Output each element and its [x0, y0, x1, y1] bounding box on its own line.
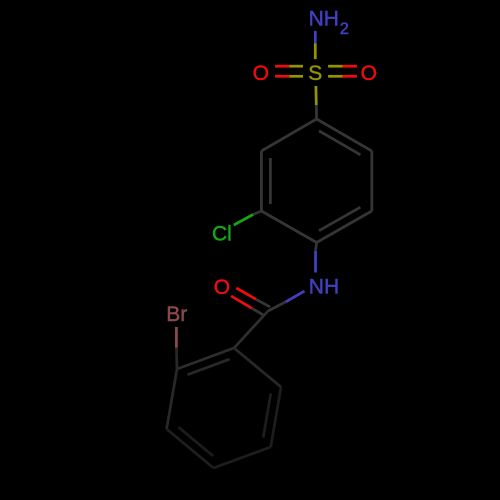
svg-text:NH: NH — [309, 275, 339, 298]
ring2 inner double C10=C11 — [179, 427, 214, 456]
ring2 edge C10-C11 — [167, 429, 214, 468]
bond C7-C8 — [234, 311, 268, 348]
bond S=O left, line2 O-half — [275, 75, 289, 78]
bond C9-Br Br-half (brown) — [175, 327, 178, 348]
svg-text:NH: NH — [309, 8, 339, 31]
svg-text:O: O — [214, 276, 230, 299]
bond N-C7 C-half (dark) — [268, 302, 286, 311]
svg-text:O: O — [253, 62, 269, 85]
bond C1-N dark stub — [316, 243, 317, 252]
bond N-S lower half (S olive) — [314, 44, 317, 60]
ring2 edge C9-C10 — [167, 369, 177, 429]
bond S=O right, line2 O-half — [343, 75, 357, 78]
bond S-C4 S-half (olive) — [315, 86, 318, 105]
ring2 edge C8-C9 — [177, 348, 234, 369]
svg-text:Cl: Cl — [212, 223, 232, 246]
bond C9-Br C-half (dark) — [175, 348, 178, 369]
ring2 inner double C12=C13 — [263, 393, 271, 437]
ring1 edge C3-C2 — [260, 151, 263, 211]
ring1 inner double C4=C5 — [319, 131, 360, 155]
bond S-C4 C-half (dark) — [315, 105, 318, 119]
bond C7=O line1 O-half (red) — [236, 288, 256, 299]
bond C2-Cl Cl-half (green) — [234, 215, 253, 226]
bond C7=O line2 C-half (dark) — [252, 308, 264, 315]
bond S=O left, line2 S-half — [289, 75, 303, 78]
bond S=O right, line2 S-half — [328, 75, 342, 78]
bond C7=O line1 C-half (dark) — [256, 299, 270, 307]
bond N-C7 N-half (blue) — [286, 291, 305, 302]
bond N-S upper half (N blue) — [314, 31, 317, 44]
ring2 edge C11-C12 — [214, 447, 271, 468]
ring1 edge C4-C3 — [261, 119, 316, 151]
bond S=O right, line1 O-half — [343, 65, 357, 68]
svg-text:S: S — [308, 62, 322, 85]
ring2 inner double C8=C9 — [188, 359, 230, 375]
ring1 inner double C3=C2 — [269, 158, 272, 204]
bond S=O left, line1 S-half — [289, 65, 303, 68]
bond S=O left, line1 O-half — [275, 65, 289, 68]
ring1 edge C1-C6 — [317, 211, 372, 243]
bond C1-N N-half (blue) — [314, 251, 317, 273]
svg-text:2: 2 — [340, 20, 349, 38]
ring2 edge C12-C13 — [271, 387, 281, 447]
bond C7=O line2 O-half (red) — [231, 296, 252, 308]
ring1 edge C6-C5 — [370, 151, 373, 211]
bond C2-Cl C-half (dark) — [253, 211, 261, 215]
svg-text:Br: Br — [166, 303, 187, 326]
svg-text:O: O — [361, 62, 377, 85]
ring2 edge C13-C8 — [234, 348, 281, 387]
bond S=O right, line1 S-half — [328, 65, 342, 68]
ring1 inner double C1=C6 — [319, 207, 360, 231]
ring1 edge C2-C1 — [261, 211, 316, 243]
ring1 edge C5-C4 — [317, 119, 372, 151]
